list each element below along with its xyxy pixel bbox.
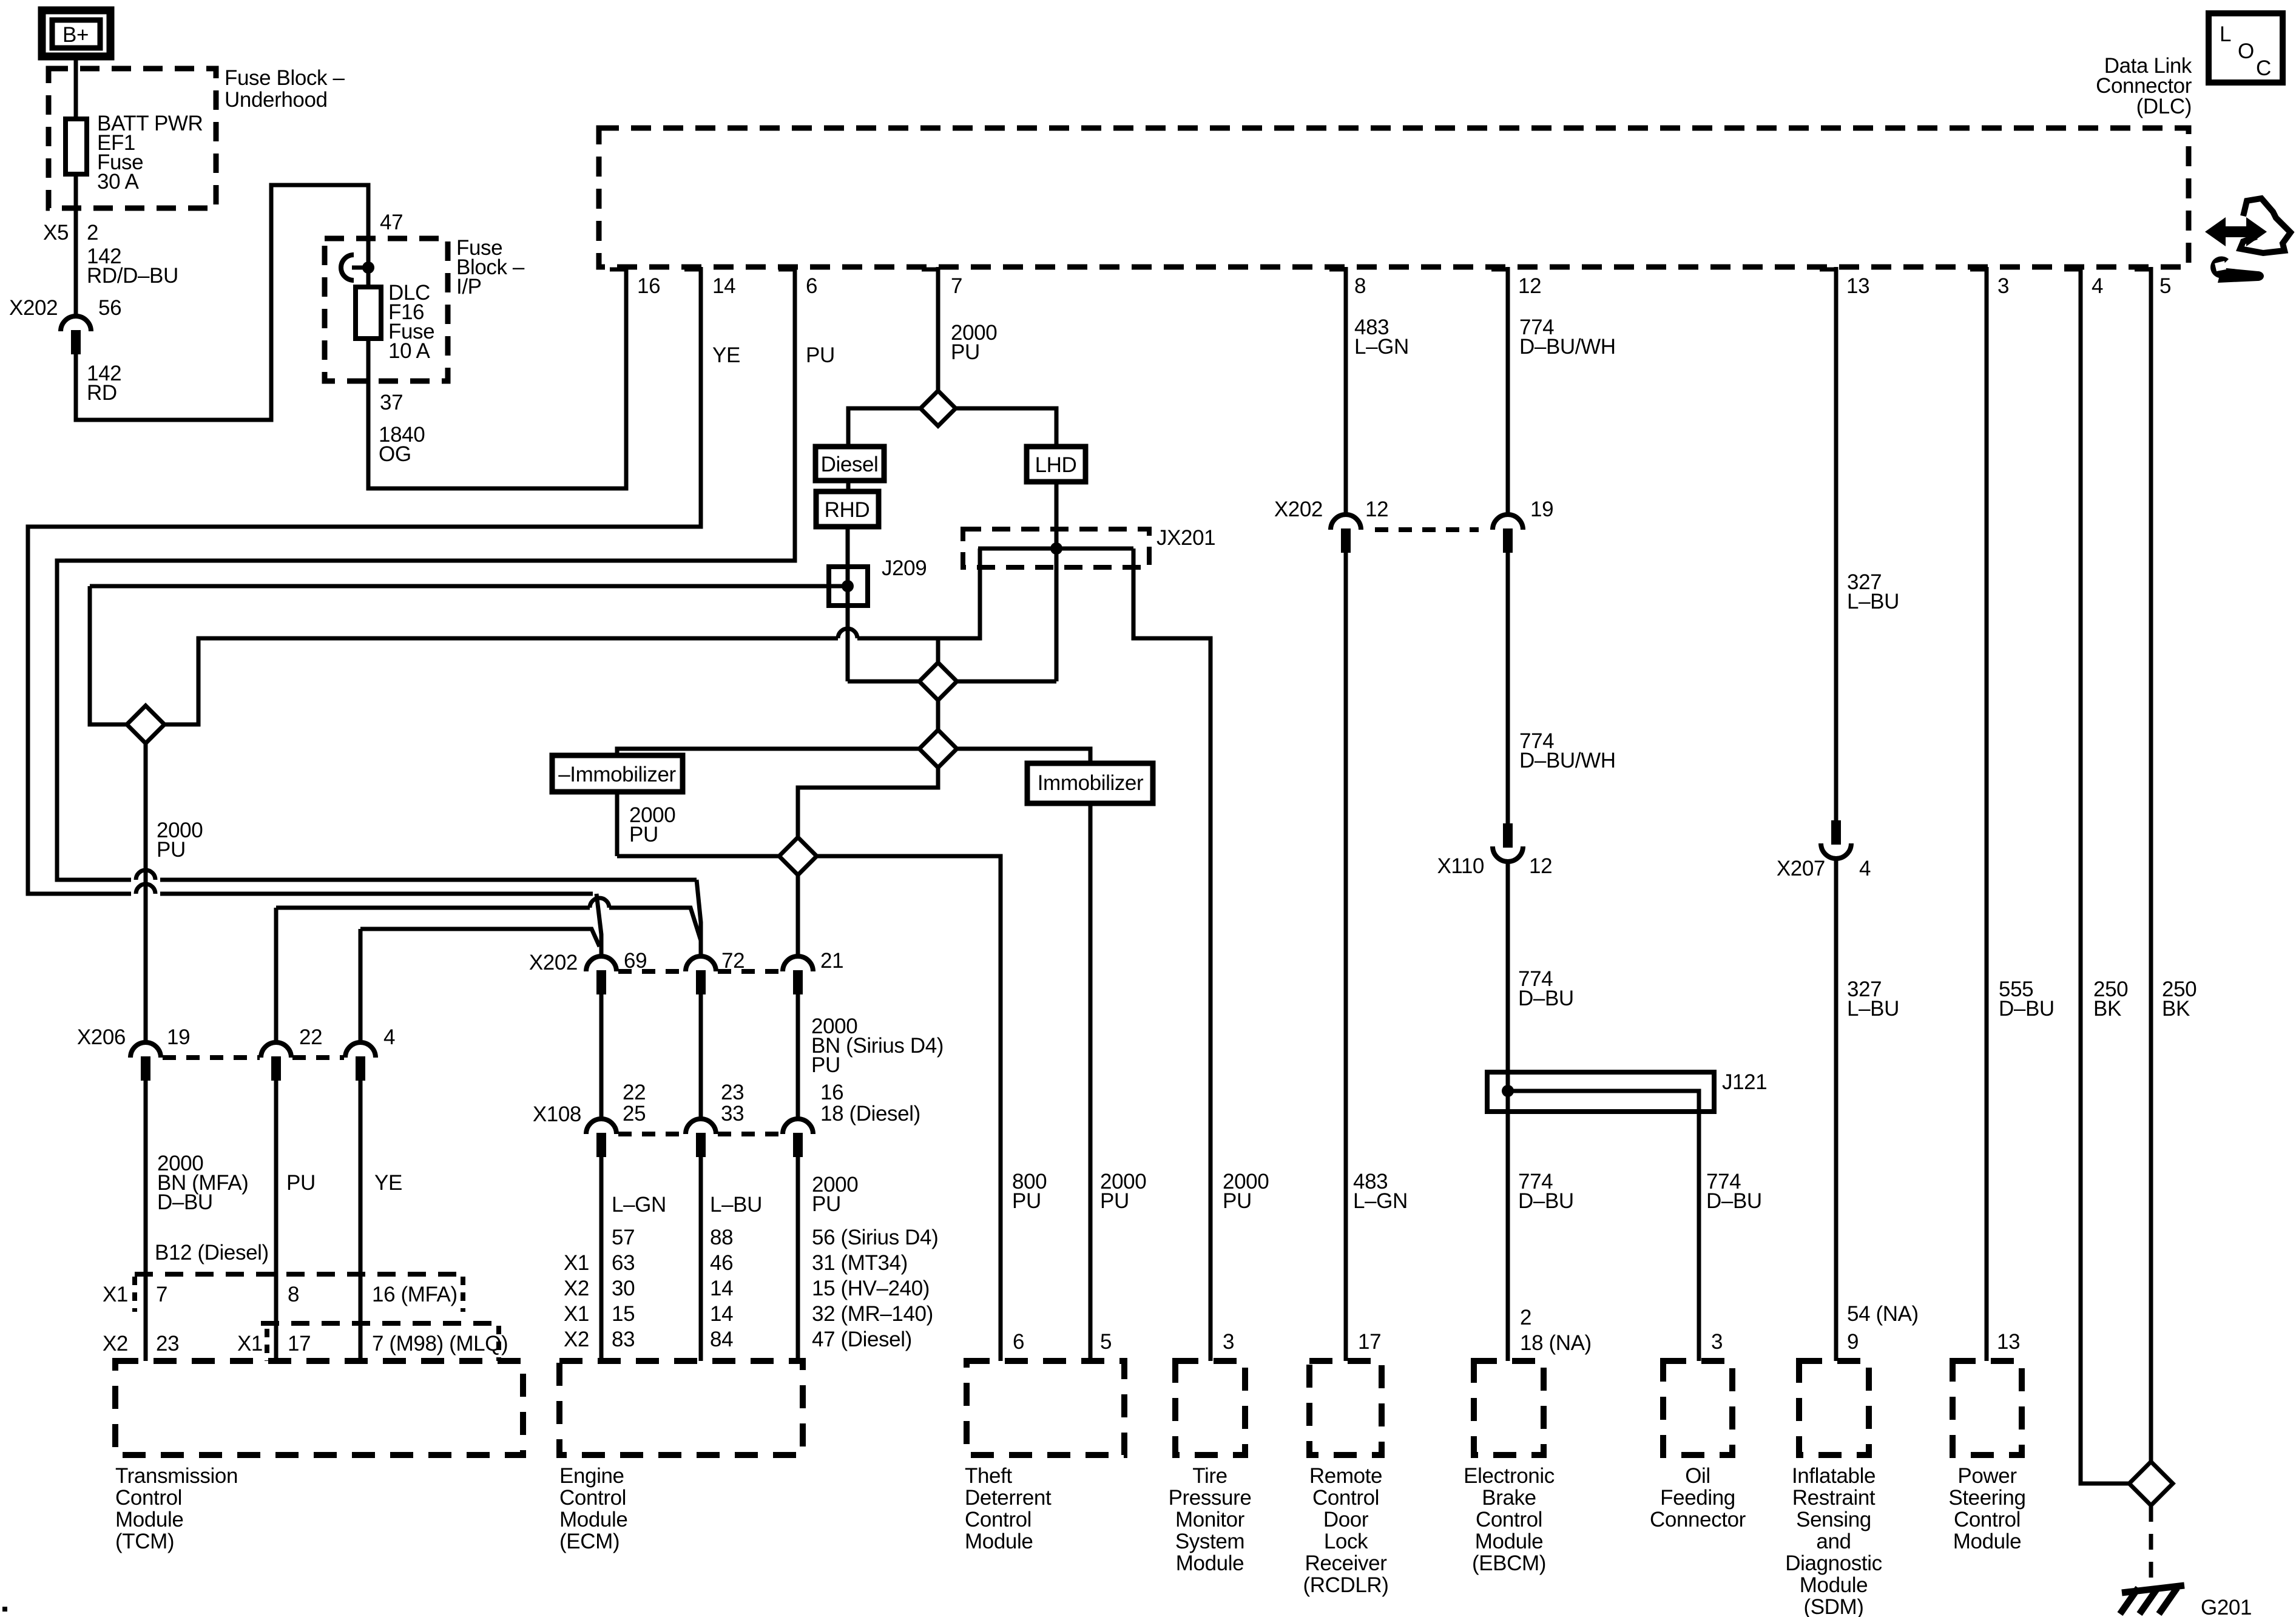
- svg-text:Pressure: Pressure: [1169, 1486, 1252, 1510]
- svg-text:Module: Module: [559, 1508, 627, 1531]
- svg-text:12: 12: [1529, 854, 1552, 878]
- module ECM dashed box: [559, 1361, 803, 1455]
- connector X202 pin 56: [61, 316, 91, 354]
- connector X108 pin 18: [783, 1119, 813, 1157]
- splice diamond: [919, 663, 957, 700]
- wire RHD to J209: [846, 527, 850, 606]
- wire: [848, 680, 919, 684]
- connector X206 pin 19: [130, 1042, 161, 1081]
- wire 2000 PU bus: [164, 638, 838, 724]
- svg-text:5: 5: [1100, 1330, 1112, 1354]
- svg-text:(TCM): (TCM): [115, 1530, 174, 1553]
- svg-text:PU: PU: [811, 1053, 840, 1077]
- svg-text:23: 23: [156, 1332, 179, 1355]
- svg-text:O: O: [2238, 39, 2254, 63]
- svg-text:X110: X110: [1437, 854, 1484, 878]
- svg-text:Theft: Theft: [965, 1464, 1012, 1488]
- svg-text:4: 4: [2092, 274, 2103, 298]
- connector X206 pin 22: [261, 1042, 291, 1081]
- svg-text:57: 57: [612, 1226, 635, 1249]
- svg-text:L–GN: L–GN: [1354, 335, 1409, 359]
- wire YE from DLC pin 14: [28, 267, 701, 894]
- splice diamond: [779, 837, 817, 875]
- option box Diesel: [815, 447, 884, 481]
- svg-text:YE: YE: [374, 1171, 402, 1195]
- fuse F16 DLC: [356, 287, 381, 339]
- svg-text:16 (MFA): 16 (MFA): [372, 1283, 458, 1306]
- connector X206 pin 4: [345, 1042, 376, 1081]
- svg-text:and: and: [1816, 1530, 1851, 1553]
- connector JX201 dashed box: [963, 529, 1149, 567]
- svg-text:33: 33: [721, 1102, 744, 1126]
- svg-text:17: 17: [288, 1332, 311, 1355]
- wire LHD to splice: [1055, 482, 1059, 681]
- icon connector outline: [2240, 198, 2291, 253]
- connector X110 pin 12: [1493, 823, 1523, 862]
- power symbol B+ box: [42, 10, 110, 56]
- svg-text:22: 22: [299, 1025, 322, 1049]
- svg-text:X5: X5: [43, 221, 69, 245]
- svg-text:14: 14: [710, 1302, 733, 1326]
- svg-text:Control: Control: [1954, 1508, 2021, 1531]
- svg-text:X1: X1: [103, 1283, 128, 1306]
- svg-text:Diagnostic: Diagnostic: [1785, 1551, 1882, 1575]
- icon wrench: [2210, 256, 2264, 283]
- wire: [936, 638, 940, 663]
- svg-text:Immobilizer: Immobilizer: [1038, 771, 1144, 795]
- wire J209 down: [846, 606, 850, 681]
- svg-text:84: 84: [710, 1328, 733, 1351]
- svg-text:Door: Door: [1323, 1508, 1369, 1531]
- connector X202 pin 19: [1493, 515, 1523, 553]
- svg-text:47: 47: [380, 211, 403, 234]
- svg-text:21: 21: [820, 949, 843, 973]
- svg-text:D–BU: D–BU: [1999, 997, 2055, 1021]
- option box -Immobilizer: [552, 755, 683, 792]
- svg-text:X108: X108: [533, 1102, 581, 1126]
- svg-text:(EBCM): (EBCM): [1472, 1551, 1546, 1575]
- wire: [160, 892, 593, 896]
- junction: [362, 262, 374, 274]
- junction J209: [842, 580, 854, 592]
- wire 2000 PU: [615, 792, 620, 856]
- oil feeding connector dashed box: [1663, 1361, 1732, 1455]
- wire: [857, 549, 980, 638]
- svg-text:I/P: I/P: [456, 275, 482, 299]
- svg-text:2: 2: [1520, 1306, 1531, 1329]
- wire 2000 PU to X206: [144, 743, 148, 1043]
- svg-text:3: 3: [1223, 1330, 1234, 1354]
- wire: [796, 994, 800, 1119]
- svg-text:X206: X206: [77, 1025, 126, 1049]
- wire 800 PU to theft deterrent: [817, 856, 1001, 1361]
- svg-text:Feeding: Feeding: [1660, 1486, 1735, 1510]
- svg-text:PU: PU: [1012, 1189, 1041, 1213]
- svg-text:30: 30: [612, 1277, 635, 1300]
- svg-text:Diesel: Diesel: [821, 453, 879, 476]
- svg-text:8: 8: [1354, 274, 1366, 298]
- svg-text:OG: OG: [379, 442, 411, 466]
- svg-text:B+: B+: [62, 23, 89, 47]
- splice J121 box: [1487, 1072, 1714, 1112]
- wire 2000 PU to theft deterrent: [1089, 803, 1093, 1361]
- wire: [617, 854, 779, 859]
- svg-text:PU: PU: [806, 343, 835, 367]
- svg-text:Remote: Remote: [1309, 1464, 1382, 1488]
- svg-text:Module: Module: [1953, 1530, 2021, 1553]
- wire: [274, 908, 279, 1043]
- svg-text:56: 56: [98, 296, 121, 320]
- svg-text:JX201: JX201: [1156, 526, 1215, 550]
- svg-text:Restraint: Restraint: [1792, 1486, 1876, 1510]
- svg-text:–Immobilizer: –Immobilizer: [558, 763, 676, 786]
- svg-text:16: 16: [637, 274, 660, 298]
- connector X202 pin 69: [586, 956, 616, 994]
- wire stubs at DLC pins: [610, 268, 626, 272]
- svg-text:17: 17: [1358, 1330, 1381, 1354]
- svg-text:16: 16: [820, 1081, 843, 1104]
- svg-text:Fuse Block –: Fuse Block –: [225, 66, 345, 90]
- fuse block I/P dashed box: [325, 238, 448, 381]
- svg-text:Transmission: Transmission: [115, 1464, 238, 1488]
- svg-text:BK: BK: [2093, 997, 2121, 1021]
- LOC icon box: [2209, 13, 2283, 83]
- svg-text:J209: J209: [882, 556, 927, 580]
- module SDM dashed box: [1799, 1361, 1869, 1455]
- svg-text:RD/D–BU: RD/D–BU: [87, 264, 178, 288]
- wire 250 BK from DLC pin 4: [2081, 267, 2129, 1484]
- wire 2000 BN PU: [796, 875, 800, 957]
- svg-text:15 (HV–240): 15 (HV–240): [812, 1277, 930, 1300]
- wire L-GN to ECM: [599, 1157, 604, 1361]
- wire 327 L-BU to SDM: [1834, 859, 1838, 1361]
- wire 2000 PU to TPMS: [1133, 549, 1210, 1361]
- svg-text:(RCDLR): (RCDLR): [1303, 1573, 1388, 1597]
- svg-text:83: 83: [612, 1328, 635, 1351]
- svg-text:Module: Module: [1475, 1530, 1543, 1553]
- svg-text:LHD: LHD: [1035, 453, 1077, 477]
- module PSCM dashed box: [1953, 1361, 2022, 1455]
- icon double arrow: [2205, 217, 2267, 246]
- svg-text:7: 7: [951, 274, 962, 298]
- svg-text:Lock: Lock: [1324, 1530, 1368, 1553]
- wire 483 L-GN to RCDLR: [1344, 553, 1348, 1361]
- svg-text:19: 19: [1530, 498, 1553, 521]
- wire: [160, 878, 697, 882]
- svg-text:Monitor: Monitor: [1175, 1508, 1245, 1531]
- svg-text:BK: BK: [2162, 997, 2190, 1021]
- svg-text:D–BU: D–BU: [1518, 1189, 1574, 1213]
- svg-text:(SDM): (SDM): [1803, 1595, 1863, 1617]
- wire 774 D-BU/WH from DLC pin 12: [1506, 267, 1510, 515]
- svg-text:X1: X1: [237, 1332, 263, 1355]
- svg-text:3: 3: [1997, 274, 2009, 298]
- connector row X202 dashes: [1375, 527, 1479, 532]
- wire 1840 OG to DLC pin 16: [368, 267, 626, 488]
- wire JX201 bus: [978, 547, 1133, 551]
- svg-text:B12 (Diesel): B12 (Diesel): [155, 1241, 269, 1264]
- svg-text:Module: Module: [1800, 1573, 1868, 1597]
- wire PU branch to X206 pin 22: [276, 906, 590, 910]
- svg-text:RD: RD: [87, 381, 117, 405]
- svg-text:PU: PU: [1100, 1189, 1129, 1213]
- svg-text:6: 6: [806, 274, 817, 298]
- svg-text:31 (MT34): 31 (MT34): [812, 1251, 908, 1275]
- wire to -Immobilizer: [617, 749, 919, 756]
- wire: [359, 929, 363, 1043]
- svg-text:PU: PU: [629, 823, 658, 846]
- svg-text:D–BU: D–BU: [1518, 987, 1574, 1010]
- wire: [609, 908, 701, 940]
- wire PU from DLC pin 6: [57, 267, 795, 880]
- svg-text:D–BU/WH: D–BU/WH: [1519, 335, 1616, 359]
- svg-text:46: 46: [710, 1251, 733, 1275]
- wire 142 RD/D-BU: [74, 174, 78, 316]
- connector stub pin 47: [341, 255, 354, 280]
- svg-text:X202: X202: [1274, 498, 1323, 521]
- svg-text:Control: Control: [559, 1486, 626, 1510]
- connector row X202 dashes: [618, 969, 684, 974]
- wire to splice diamond: [90, 586, 127, 724]
- svg-text:6: 6: [1013, 1330, 1024, 1354]
- svg-text:Engine: Engine: [559, 1464, 624, 1488]
- junction: [1050, 542, 1062, 555]
- svg-text:X2: X2: [564, 1328, 589, 1351]
- wire to J209: [90, 584, 848, 589]
- svg-text:8: 8: [288, 1283, 299, 1306]
- svg-text:22: 22: [623, 1081, 646, 1104]
- wire to fuse F16: [366, 268, 371, 287]
- splice diamond: [920, 391, 956, 426]
- svg-text:14: 14: [710, 1277, 733, 1300]
- option box RHD: [816, 491, 879, 527]
- svg-text:(DLC): (DLC): [2136, 95, 2192, 118]
- svg-text:4: 4: [1859, 857, 1871, 880]
- svg-text:D–BU: D–BU: [157, 1190, 213, 1214]
- svg-text:Brake: Brake: [1482, 1486, 1536, 1510]
- svg-text:Tire: Tire: [1192, 1464, 1227, 1488]
- svg-text:C: C: [2256, 56, 2271, 80]
- svg-text:Inflatable: Inflatable: [1792, 1464, 1876, 1488]
- wire 2000 BN(MFA) D-BU to TCM: [144, 1081, 148, 1361]
- module TPMS dashed box: [1175, 1361, 1245, 1455]
- svg-text:L: L: [2220, 22, 2231, 46]
- connector row X1 TCM second: [261, 1321, 499, 1326]
- svg-text:D–BU: D–BU: [1706, 1189, 1762, 1213]
- connector row X206 dashes: [163, 1055, 260, 1060]
- svg-text:12: 12: [1518, 274, 1541, 298]
- wire 2000 PU from DLC pin 7: [936, 267, 940, 391]
- svg-text:37: 37: [380, 391, 403, 414]
- svg-text:PU: PU: [1223, 1189, 1252, 1213]
- svg-text:4: 4: [383, 1025, 395, 1049]
- svg-text:18 (NA): 18 (NA): [1520, 1331, 1592, 1355]
- svg-text:D–BU/WH: D–BU/WH: [1519, 749, 1616, 772]
- wire to Immobilizer: [957, 749, 1090, 764]
- wire 483 L-GN from DLC pin 8: [1344, 267, 1348, 515]
- svg-text:25: 25: [623, 1102, 646, 1126]
- svg-text:Sensing: Sensing: [1796, 1508, 1871, 1531]
- svg-text:Module: Module: [115, 1508, 183, 1531]
- svg-text:54 (NA): 54 (NA): [1847, 1302, 1919, 1326]
- svg-text:18 (Diesel): 18 (Diesel): [820, 1102, 920, 1126]
- svg-text:15: 15: [612, 1302, 635, 1326]
- data link connector DLC dashed box: [599, 128, 2189, 267]
- svg-text:9: 9: [1847, 1330, 1859, 1354]
- connector X108 pin 25: [586, 1119, 616, 1157]
- svg-text:X1: X1: [564, 1251, 589, 1275]
- wire to ground G201: [2149, 1506, 2153, 1581]
- svg-text:X202: X202: [529, 951, 578, 974]
- svg-text:L–GN: L–GN: [1353, 1189, 1408, 1213]
- wire YE to TCM: [359, 1081, 363, 1361]
- svg-text:23: 23: [721, 1081, 744, 1104]
- svg-text:Power: Power: [1957, 1464, 2017, 1488]
- svg-text:(ECM): (ECM): [559, 1530, 620, 1553]
- module EBCM dashed box: [1474, 1361, 1544, 1455]
- svg-text:X1: X1: [564, 1302, 589, 1326]
- ground G201: [2120, 1585, 2184, 1614]
- wire: [798, 768, 938, 838]
- wire B+ to fuse EF1: [74, 56, 78, 119]
- svg-text:Electronic: Electronic: [1464, 1464, 1555, 1488]
- module theft deterrent dashed box: [967, 1361, 1124, 1455]
- svg-text:PU: PU: [951, 340, 980, 364]
- connector row X108 dashes: [618, 1132, 684, 1136]
- svg-text:Oil: Oil: [1685, 1464, 1710, 1488]
- svg-text:3: 3: [1711, 1330, 1723, 1354]
- wire 250 BK from DLC pin 5: [2149, 267, 2153, 1462]
- splice J209 box: [829, 567, 868, 606]
- svg-text:Deterrent: Deterrent: [965, 1486, 1052, 1510]
- svg-text:10 A: 10 A: [388, 339, 431, 363]
- wire: [957, 680, 1056, 684]
- svg-text:47 (Diesel): 47 (Diesel): [812, 1328, 912, 1351]
- svg-text:56 (Sirius D4): 56 (Sirius D4): [812, 1226, 938, 1249]
- svg-text:Steering: Steering: [1948, 1486, 2025, 1510]
- junction J121: [1502, 1085, 1514, 1097]
- svg-text:30 A: 30 A: [97, 170, 140, 194]
- svg-text:RHD: RHD: [825, 498, 870, 522]
- wire L-BU to ECM: [699, 1157, 703, 1361]
- svg-text:63: 63: [612, 1251, 635, 1275]
- svg-text:PU: PU: [286, 1171, 316, 1195]
- wire to Diesel option: [848, 408, 920, 447]
- svg-text:7: 7: [156, 1283, 167, 1306]
- svg-text:5: 5: [2159, 274, 2171, 298]
- wire PU to TCM: [274, 1081, 279, 1361]
- connector X202 pin 21: [783, 956, 813, 994]
- mark: [2, 1607, 7, 1612]
- svg-text:L–BU: L–BU: [710, 1193, 762, 1217]
- svg-text:L–GN: L–GN: [612, 1193, 666, 1217]
- svg-text:PU: PU: [157, 838, 186, 862]
- svg-text:69: 69: [624, 949, 647, 973]
- option box Immobilizer: [1027, 763, 1153, 803]
- wire: [846, 481, 851, 491]
- wire: [699, 994, 703, 1119]
- svg-text:L–BU: L–BU: [1847, 590, 1899, 613]
- svg-text:X207: X207: [1777, 857, 1825, 880]
- connector X202 pin 12: [1331, 515, 1361, 553]
- option box LHD: [1027, 447, 1086, 482]
- wire: [936, 700, 940, 730]
- svg-text:Module: Module: [1176, 1551, 1244, 1575]
- connector X207 pin 4: [1821, 820, 1851, 859]
- svg-text:Control: Control: [115, 1486, 182, 1510]
- wire 774 D-BU/WH: [1506, 553, 1510, 823]
- wire YE branch to X206 pin 4: [360, 929, 599, 947]
- svg-text:J121: J121: [1722, 1070, 1767, 1094]
- svg-text:Connector: Connector: [1650, 1508, 1746, 1531]
- splice diamond ground: [2129, 1462, 2173, 1505]
- svg-text:Receiver: Receiver: [1305, 1551, 1388, 1575]
- splice diamond: [919, 730, 957, 768]
- connector X108 pin 33: [686, 1119, 716, 1157]
- svg-text:72: 72: [721, 949, 745, 973]
- connector row X1 TCM: [135, 1272, 463, 1277]
- svg-text:G201: G201: [2201, 1596, 2252, 1617]
- wire 2000 PU to ECM: [796, 1157, 800, 1361]
- svg-text:YE: YE: [712, 343, 740, 367]
- connector X202 pin 72: [686, 956, 716, 994]
- svg-text:14: 14: [712, 274, 735, 298]
- svg-text:Module: Module: [965, 1530, 1033, 1553]
- svg-text:L–BU: L–BU: [1847, 997, 1899, 1021]
- svg-text:Underhood: Underhood: [225, 88, 328, 112]
- svg-text:2: 2: [87, 221, 98, 245]
- svg-text:X2: X2: [103, 1332, 128, 1355]
- svg-text:PU: PU: [812, 1192, 841, 1216]
- wire 774 D-BU to EBCM: [1506, 862, 1510, 1361]
- wire junction to X202 pin 72: [697, 880, 701, 957]
- svg-text:Control: Control: [1476, 1508, 1542, 1531]
- svg-text:System: System: [1175, 1530, 1244, 1553]
- svg-text:32 (MR–140): 32 (MR–140): [812, 1302, 933, 1326]
- wire: [599, 994, 604, 1119]
- svg-text:X2: X2: [564, 1277, 589, 1300]
- fuse EF1: [66, 119, 87, 174]
- wire 555 D-BU from DLC pin 3 to PSCM: [1985, 267, 1989, 1361]
- wire junction to X202 pin 69: [596, 894, 601, 957]
- wire 142 RD to fuse block I/P: [76, 185, 368, 420]
- svg-text:X202: X202: [9, 296, 58, 320]
- svg-text:Control: Control: [1312, 1486, 1379, 1510]
- splice diamond left: [127, 706, 164, 743]
- wire 327 L-BU from DLC pin 13: [1834, 267, 1838, 820]
- svg-text:13: 13: [1997, 1330, 2020, 1354]
- svg-text:88: 88: [710, 1226, 733, 1249]
- svg-text:13: 13: [1846, 274, 1869, 298]
- svg-text:7 (M98) (MLQ): 7 (M98) (MLQ): [372, 1332, 508, 1355]
- module TCM dashed box: [115, 1361, 523, 1455]
- fuse block underhood dashed box: [49, 69, 216, 208]
- module RCDLR dashed box: [1309, 1361, 1382, 1455]
- svg-text:Control: Control: [965, 1508, 1032, 1531]
- svg-text:19: 19: [167, 1025, 190, 1049]
- wire to LHD option: [956, 408, 1056, 447]
- wire 774 D-BU to oil feeding connector: [1508, 1091, 1699, 1361]
- svg-text:12: 12: [1365, 498, 1388, 521]
